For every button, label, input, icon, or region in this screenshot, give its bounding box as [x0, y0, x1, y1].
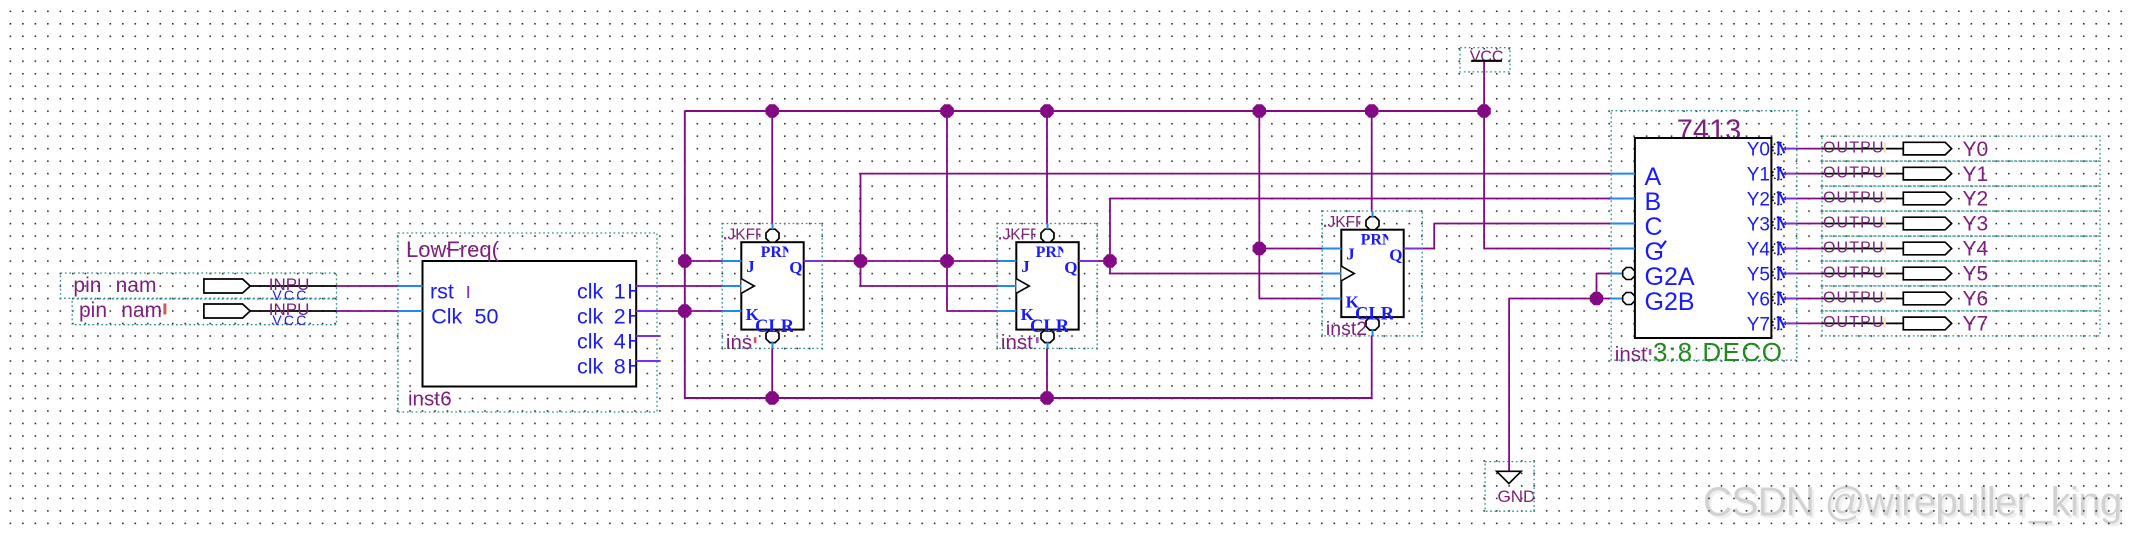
- junction Q1 node: [854, 254, 867, 267]
- wire Q3 east: [1422, 248, 1435, 250]
- JK flip-flop 2 PRN bubble: [1041, 229, 1054, 242]
- output pin Y3 lead: [1822, 223, 1903, 225]
- wire PRN riser FF2: [1046, 111, 1048, 224]
- svg-text:Y2: Y2: [1747, 190, 1770, 211]
- LowFreq input stub rst: [398, 285, 423, 287]
- JK flip-flop 2 PRN stub: [1047, 224, 1049, 230]
- junction top bus FF2: [1040, 104, 1053, 117]
- junction J1 node: [678, 254, 691, 267]
- decoder G1 prime mark: [1660, 241, 1666, 249]
- svg-text:Y1: Y1: [1963, 163, 1989, 186]
- JK flip-flop 2 output stub Q: [1079, 260, 1098, 262]
- JK flip-flop 3 PRN stub: [1372, 211, 1374, 217]
- svg-text:rst: rst: [430, 280, 454, 304]
- JK flip-flop 1 PRN stub: [772, 224, 774, 230]
- output pin Y0 lead: [1822, 148, 1903, 150]
- svg-text:JKFF: JKFF: [1003, 227, 1040, 244]
- svg-text:K: K: [746, 305, 760, 324]
- svg-text:J: J: [746, 257, 755, 276]
- decoder output stub Y2: [1785, 198, 1797, 200]
- GND triangle: [1497, 471, 1522, 483]
- wire row C to decoder: [1434, 223, 1610, 225]
- LowFreq output stub clk4: [636, 335, 659, 337]
- output pin Y5 clipped char: [1884, 267, 1886, 278]
- junction Q2 node: [1103, 254, 1116, 267]
- output pin Y1 symbol: [1903, 167, 1951, 180]
- output pin Y7 selection box: [1822, 311, 2100, 336]
- svg-text:Y5: Y5: [1963, 263, 1989, 286]
- decoder output port circle Y4: [1773, 242, 1786, 255]
- JK flip-flop 2 CLRN stub: [1047, 342, 1049, 348]
- input pin P2 clipped char: [163, 304, 166, 315]
- wire G2A branch vertical: [1596, 274, 1598, 299]
- output pin Y7 clipped char: [1884, 317, 1886, 328]
- svg-text:1: 1: [614, 280, 626, 304]
- decoder input stub A: [1610, 173, 1635, 175]
- svg-text:K: K: [1346, 293, 1360, 312]
- wire PRN riser FF3: [1371, 111, 1373, 211]
- svg-text:Y6: Y6: [1747, 290, 1770, 311]
- svg-text:Y6: Y6: [1963, 288, 1989, 311]
- svg-text:OUTPU: OUTPU: [1823, 314, 1885, 331]
- wire Y7 to pin: [1797, 322, 1822, 324]
- decoder input stub C: [1610, 223, 1635, 225]
- svg-text:6: 6: [440, 388, 451, 411]
- decoder output port circle Y3: [1773, 217, 1786, 230]
- output pin Y3 symbol: [1903, 217, 1951, 230]
- output pin Y2 clipped char: [1884, 192, 1886, 203]
- wire riser x1259 bus to J3/K3: [1258, 111, 1260, 299]
- svg-text:OUTPU: OUTPU: [1823, 214, 1885, 231]
- wire row A to decoder: [861, 173, 1611, 175]
- wire VCC riser down to G1 row: [1483, 111, 1485, 249]
- output pin Y5 selection box: [1822, 261, 2100, 286]
- output pin Y6 clipped char: [1884, 292, 1886, 303]
- input pin P1 selection box: [61, 273, 337, 298]
- JK flip-flop 1 input stub K: [722, 310, 741, 312]
- decoder output stub Y6: [1785, 298, 1797, 300]
- input pin P2 lead: [250, 310, 336, 312]
- wire pin2 to Clk50: [337, 310, 399, 312]
- svg-text:clk: clk: [577, 355, 604, 379]
- svg-text:Y4: Y4: [1963, 238, 1989, 261]
- JK flip-flop 1 input stub clock: [722, 285, 741, 287]
- output pin Y0 selection box: [1822, 136, 2100, 161]
- wire GND riser: [1508, 299, 1510, 472]
- junction G2 node: [1590, 292, 1603, 305]
- JK flip-flop 2 selection box: [997, 224, 1097, 349]
- svg-text:pin: pin: [79, 299, 107, 322]
- decoder input stub B: [1610, 198, 1635, 200]
- JK flip-flop 2 input stub J: [997, 260, 1016, 262]
- wire Q2 riser: [1109, 199, 1111, 274]
- junction top bus VCC: [1477, 104, 1490, 117]
- JK flip-flop 2 CLRN bubble: [1041, 330, 1054, 343]
- svg-text:clk: clk: [577, 330, 604, 354]
- JK flip-flop 3 port text PRN: [1361, 232, 1394, 249]
- wire clk1 to FF1 clock: [660, 285, 723, 287]
- svg-text:JKFF: JKFF: [728, 227, 765, 244]
- JK flip-flop 1 input stub J: [722, 260, 741, 262]
- output pin Y3 clipped char: [1884, 217, 1886, 228]
- decoder output stub Y5: [1785, 273, 1797, 275]
- output pin Y3 selection box: [1822, 211, 2100, 236]
- svg-text:8: 8: [614, 355, 626, 379]
- output pin Y0 symbol: [1903, 142, 1951, 155]
- svg-text:JKFF: JKFF: [1328, 214, 1365, 231]
- junction top bus FF3: [1365, 104, 1378, 117]
- LowFreq ports clk 1/2/4/8: [577, 280, 643, 379]
- junction Q1/K2 riser node: [940, 254, 954, 267]
- decoder output stub Y3: [1785, 223, 1797, 225]
- wire Y5 to pin: [1797, 273, 1822, 275]
- JK flip-flop 1 port text CLRN: [755, 317, 808, 337]
- input pin P2 selection box: [72, 299, 336, 325]
- LowFreq selection box: [398, 233, 657, 412]
- wire Q1 riser up to row A: [860, 174, 862, 286]
- VCC bar: [1472, 60, 1503, 62]
- wire Y4 to pin: [1797, 248, 1822, 250]
- svg-text:2: 2: [614, 305, 626, 329]
- wire J3 feed: [1259, 248, 1321, 250]
- junction top bus x947: [940, 104, 954, 117]
- svg-text:J: J: [1346, 245, 1355, 264]
- wire Y1 to pin: [1797, 173, 1822, 175]
- JK flip-flop 2 body: [1016, 242, 1078, 329]
- svg-text:OUTPU: OUTPU: [1823, 164, 1885, 181]
- svg-text:ins: ins: [726, 331, 752, 354]
- JK flip-flop 2 JKFF label: [1003, 227, 1040, 244]
- wire K3 feed: [1259, 298, 1321, 300]
- svg-text:Q: Q: [789, 258, 802, 277]
- JK flip-flop 2 input stub K: [997, 310, 1016, 312]
- junction bottom bus FF2: [1040, 391, 1053, 404]
- wire G2A branch: [1597, 273, 1611, 275]
- svg-text:VCC: VCC: [272, 312, 308, 328]
- decoder output stub Y1: [1785, 173, 1797, 175]
- decoder G2B bubble: [1623, 293, 1635, 305]
- wire CLRN riser FF1: [771, 348, 773, 398]
- JK flip-flop 1 PRN bubble: [766, 229, 779, 242]
- svg-text:inst: inst: [408, 388, 440, 411]
- svg-text:3:8 DECO: 3:8 DECO: [1653, 337, 1784, 367]
- output pin Y2 selection box: [1822, 186, 2100, 211]
- decoder output stub Y0: [1785, 148, 1797, 150]
- svg-text:VCC: VCC: [1470, 48, 1504, 65]
- svg-text:Q: Q: [1064, 258, 1077, 277]
- JK flip-flop 3 port text CLRN: [1355, 304, 1408, 324]
- input pin P1 symbol: [204, 279, 250, 293]
- JK flip-flop 3 CLRN bubble: [1366, 317, 1379, 330]
- output pin Y6 selection box: [1822, 286, 2100, 311]
- svg-text:GND: GND: [1498, 487, 1536, 506]
- LowFreq output stub clk1: [636, 285, 659, 287]
- output pin Y4 selection box: [1822, 236, 2100, 261]
- output pin Y4 lead: [1822, 248, 1903, 250]
- GND label: [1498, 487, 1536, 506]
- junction J3 node: [1253, 242, 1266, 255]
- JK flip-flop 2 input stub clock: [997, 285, 1016, 287]
- JK flip-flop 3 body: [1341, 230, 1403, 317]
- svg-text:LowFreq(: LowFreq(: [406, 237, 500, 262]
- JK flip-flop 1 port text PRN: [761, 244, 794, 261]
- wire Y2 to pin: [1797, 198, 1822, 200]
- wire left vertical x685: [684, 111, 686, 398]
- JK flip-flop 1 selection box: [722, 224, 822, 349]
- junction top bus x1259: [1253, 104, 1266, 117]
- LowFreq input stub Clk50: [398, 310, 423, 312]
- output pin Y6 lead: [1822, 298, 1903, 300]
- output pin Y2 symbol: [1903, 192, 1951, 205]
- svg-text:Y7: Y7: [1747, 314, 1770, 335]
- svg-text:Clk: Clk: [431, 304, 462, 328]
- wire clk2 feed horizontal: [861, 285, 998, 287]
- wire Q1 to J2: [822, 260, 997, 262]
- wire GND to G2 junction: [1509, 298, 1596, 300]
- wire PRN riser FF1: [771, 111, 773, 224]
- JK flip-flop 3 input stub clock: [1322, 273, 1341, 275]
- svg-text:OUTPU: OUTPU: [1823, 239, 1885, 256]
- JK flip-flop 3 PRN bubble: [1366, 217, 1379, 230]
- JK flip-flop 1 JKFF label: [728, 227, 765, 244]
- wire J1 feed: [685, 260, 722, 262]
- output pin Y6 symbol: [1903, 292, 1951, 305]
- wire row B to decoder: [1110, 198, 1610, 200]
- svg-text:nam: nam: [116, 274, 157, 297]
- LowFreq output stub clk8: [636, 360, 659, 362]
- svg-text:Y0: Y0: [1963, 138, 1989, 161]
- JK flip-flop 3 JKFF label: [1328, 214, 1365, 231]
- wire Y6 to pin: [1797, 298, 1822, 300]
- svg-text:Y2: Y2: [1963, 188, 1989, 211]
- decoder output port circle Y0: [1773, 142, 1786, 155]
- JK flip-flop 1 clock triangle: [741, 279, 754, 294]
- svg-text:K: K: [1021, 305, 1035, 324]
- decoder selection box: [1611, 111, 1797, 361]
- JK flip-flop 1 output stub Q: [804, 260, 823, 262]
- output pin Y1 selection box: [1822, 161, 2100, 186]
- output pin Y7 symbol: [1903, 317, 1951, 330]
- JK flip-flop 2 clock triangle: [1016, 279, 1029, 294]
- svg-text:C: C: [1645, 213, 1663, 241]
- wire CLRN riser FF2: [1046, 348, 1048, 398]
- input pin P2 symbol: [204, 304, 250, 318]
- output pin Y1 clipped char: [1884, 167, 1886, 178]
- decoder input stub G: [1610, 248, 1635, 250]
- input pin P1 lead: [250, 285, 336, 287]
- LowFreq rst cursor: [467, 286, 469, 298]
- decoder output port circle Y5: [1773, 267, 1786, 280]
- junction K1 node: [678, 304, 691, 317]
- decoder output port circle Y2: [1773, 192, 1786, 205]
- JK flip-flop 1 body: [741, 242, 803, 329]
- svg-text:Y4: Y4: [1747, 240, 1771, 261]
- wire Y3 to pin: [1797, 223, 1822, 225]
- JK flip-flop 1 CLRN bubble: [766, 330, 779, 343]
- JK flip-flop 2 port text CLRN: [1030, 317, 1083, 337]
- decoder output port circle Y7: [1773, 317, 1786, 330]
- wire G2B branch: [1597, 298, 1611, 300]
- wire bottom CLRN bus: [685, 397, 1372, 399]
- output pin Y4 symbol: [1903, 242, 1951, 255]
- JK flip-flop 3 selection box: [1322, 211, 1422, 336]
- svg-text:A: A: [1645, 163, 1662, 191]
- svg-text:OUTPU: OUTPU: [1823, 139, 1885, 156]
- wire clk2 to junction: [660, 310, 685, 312]
- svg-text:Y1: Y1: [1747, 165, 1770, 186]
- svg-text:nam: nam: [121, 299, 162, 322]
- wire K1 feed: [685, 310, 722, 312]
- output pin Y4 clipped char: [1884, 242, 1886, 253]
- svg-text:OUTPU: OUTPU: [1823, 289, 1885, 306]
- JK flip-flop 3 CLRN stub: [1372, 330, 1374, 336]
- decoder output port circle Y6: [1773, 292, 1786, 305]
- svg-text:J: J: [1021, 257, 1030, 276]
- output pin Y2 lead: [1822, 198, 1903, 200]
- svg-text:OUTPU: OUTPU: [1823, 189, 1885, 206]
- svg-text:Y0: Y0: [1747, 140, 1770, 161]
- junction top bus FF1: [766, 104, 779, 117]
- svg-text:clk: clk: [577, 305, 604, 329]
- decoder input stub G2B: [1610, 298, 1622, 300]
- wire K2 feed: [947, 310, 997, 312]
- LowFreq output stub clk2: [636, 310, 659, 312]
- svg-text:Y5: Y5: [1747, 265, 1770, 286]
- output pin Y5 symbol: [1903, 267, 1951, 280]
- VCC selection box: [1460, 48, 1510, 72]
- wire top VCC bus: [685, 110, 1484, 112]
- svg-text:Y7: Y7: [1963, 313, 1989, 336]
- wire Q2 to junction: [1095, 260, 1110, 262]
- decoder G2A bubble: [1623, 268, 1635, 280]
- svg-text:inst2: inst2: [1326, 318, 1367, 340]
- junction bottom bus FF1: [766, 391, 779, 404]
- svg-text:G2A: G2A: [1645, 263, 1695, 291]
- svg-text:pin: pin: [73, 274, 101, 297]
- svg-text:inst: inst: [1615, 343, 1647, 366]
- output pin Y5 lead: [1822, 273, 1903, 275]
- svg-text:G: G: [1645, 238, 1664, 266]
- decoder output stub Y7: [1785, 322, 1797, 324]
- svg-text:inst: inst: [1001, 331, 1033, 354]
- JK flip-flop 3 output stub Q: [1404, 248, 1423, 250]
- decoder input stub G2A: [1610, 273, 1622, 275]
- svg-text:B: B: [1645, 188, 1662, 216]
- svg-text:clk: clk: [577, 280, 604, 304]
- wire Q3 riser: [1433, 224, 1435, 249]
- JK flip-flop 2 port text PRN: [1036, 244, 1069, 261]
- svg-text:OUTPU: OUTPU: [1823, 264, 1885, 281]
- GND selection box: [1485, 462, 1534, 512]
- output pin Y7 lead: [1822, 322, 1903, 324]
- wire clk3 feed: [1110, 273, 1322, 275]
- JK flip-flop 1 CLRN stub: [772, 342, 774, 348]
- JK flip-flop 3 input stub K: [1322, 298, 1341, 300]
- svg-text:G2B: G2B: [1645, 288, 1695, 316]
- svg-text:4: 4: [614, 330, 626, 354]
- svg-text:Y3: Y3: [1963, 213, 1989, 236]
- JK flip-flop 3 clock triangle: [1341, 266, 1354, 281]
- JK flip-flop 3 input stub J: [1322, 248, 1341, 250]
- svg-text:Q: Q: [1389, 246, 1402, 265]
- wire riser x947 bus to K2: [946, 111, 948, 311]
- output pin Y1 lead: [1822, 173, 1903, 175]
- LowFreq body: [423, 261, 637, 387]
- wire pin1 to rst: [337, 285, 399, 287]
- wire CLRN riser FF3: [1371, 336, 1373, 398]
- svg-text:Y3: Y3: [1747, 215, 1770, 236]
- decoder output port circle Y1: [1773, 167, 1786, 180]
- decoder body: [1635, 138, 1772, 338]
- wire VCC symbol riser: [1483, 61, 1485, 111]
- decoder output stub Y4: [1785, 248, 1797, 250]
- wire Y0 to pin: [1797, 148, 1822, 150]
- wire G1 feed: [1484, 248, 1610, 250]
- svg-text:50: 50: [475, 304, 499, 328]
- output pin Y0 clipped char: [1884, 142, 1886, 153]
